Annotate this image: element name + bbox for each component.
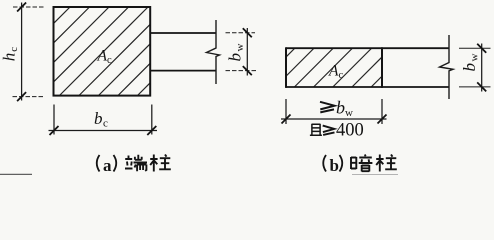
dimension >=bw (figure b): extension lines xyxy=(285,99,287,124)
wall top line (figure b) xyxy=(286,47,449,49)
svg-text:hc: hc xyxy=(0,47,20,62)
hatching of column Ac (figure b) xyxy=(238,0,458,105)
dimension bw (figure b): extension lines xyxy=(459,47,491,49)
wall bottom line (figure b) xyxy=(286,86,449,88)
dimension bw (figure a): dimension line xyxy=(246,28,248,76)
dimension hc (figure a): dimension line xyxy=(21,3,23,101)
dimension hc (figure a): extension lines xyxy=(13,6,44,8)
svg-text:a: a xyxy=(103,156,112,175)
dimension bw (figure b): dimension line xyxy=(481,44,483,92)
wall bottom line (figure a) xyxy=(151,70,216,72)
svg-text:bw: bw xyxy=(226,43,246,61)
dimension bw (figure a): extension lines xyxy=(226,32,256,34)
dimension bc (figure a): extension lines xyxy=(53,105,55,135)
column outline (figure a square) xyxy=(54,7,151,96)
note 且>=400 glyph 且 xyxy=(310,124,322,136)
dimension >=bw (figure b): dimension line xyxy=(281,118,387,120)
break line (figure a) xyxy=(207,20,220,84)
dimension >=bw (figure b): tick marks xyxy=(282,115,291,124)
scan artifact bottom-left xyxy=(0,173,32,175)
note >=400 text xyxy=(323,126,335,135)
column boundary line (figure b) xyxy=(381,47,383,88)
dimension >=bw (figure b): label xyxy=(320,102,335,113)
hatching of column Ac (figure a) xyxy=(0,0,233,105)
caption glyph 柱 xyxy=(150,155,171,172)
dimension hc (figure a): tick marks xyxy=(17,3,26,12)
svg-text:Ac: Ac xyxy=(97,48,112,67)
wall left edge (figure b) xyxy=(285,47,287,88)
scan artifact bottom-right ghost xyxy=(352,174,398,176)
caption (b) xyxy=(323,155,326,172)
caption glyph 暗 xyxy=(351,155,372,172)
svg-text:bw: bw xyxy=(336,98,353,120)
dimension bc (figure a): dimension line xyxy=(49,130,158,132)
svg-text:bw: bw xyxy=(460,53,480,71)
caption glyph 端 xyxy=(125,155,147,171)
break line (figure b) xyxy=(440,35,454,99)
svg-text:Ac: Ac xyxy=(328,63,343,82)
caption (a) xyxy=(97,155,100,172)
svg-text:b: b xyxy=(330,156,339,175)
dimension bw (figure a): tick marks xyxy=(243,28,252,37)
svg-text:bc: bc xyxy=(94,109,108,129)
svg-text:400: 400 xyxy=(336,121,364,141)
dimension bw (figure b): tick marks xyxy=(477,44,486,53)
wall top line (figure a) xyxy=(151,32,216,34)
caption glyph 柱 (second) xyxy=(376,155,397,172)
dimension bc (figure a): tick marks xyxy=(50,126,59,135)
